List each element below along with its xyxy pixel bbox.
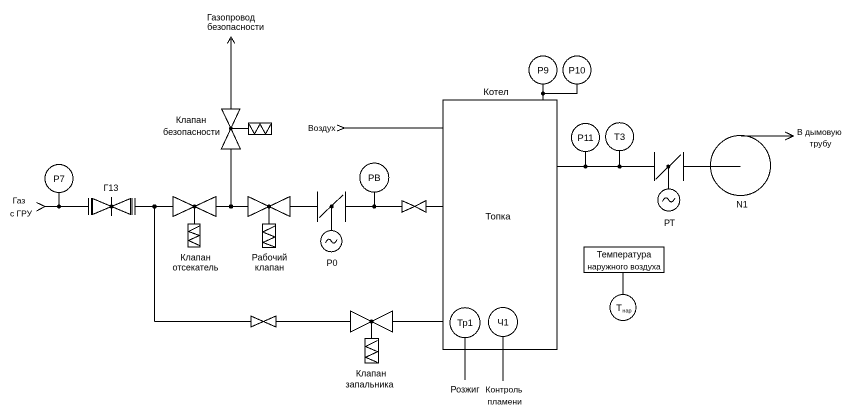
wire safety branch vertical	[230, 149, 232, 207]
svg-text:В дымовую: В дымовую	[797, 127, 842, 137]
instrument Тр1	[450, 308, 480, 380]
svg-text:Газопровод: Газопровод	[207, 13, 256, 23]
wire main gas line segment 6	[426, 206, 443, 208]
label Тнар	[616, 303, 631, 315]
valve Рабочий клапан	[248, 197, 290, 248]
wire main gas line segment 4	[290, 206, 317, 208]
label Котел	[483, 87, 508, 98]
node bypass branch	[152, 204, 156, 208]
svg-text:Розжиг: Розжиг	[451, 385, 481, 395]
node at P7 tap	[57, 205, 61, 209]
wire to smoke exhauster	[683, 166, 740, 168]
label Клапан запальника	[345, 369, 393, 390]
control valve Р0	[317, 192, 345, 252]
label Ч1	[497, 318, 509, 329]
svg-text:Клапан: Клапан	[180, 253, 210, 263]
label Г13	[104, 183, 119, 193]
valve bypass small	[251, 316, 276, 327]
svg-text:РВ: РВ	[368, 173, 381, 184]
node control valve РТ center	[666, 165, 670, 169]
svg-text:нар: нар	[622, 309, 631, 315]
label Клапан безопасности	[163, 115, 220, 137]
svg-text:Температура: Температура	[597, 250, 652, 260]
svg-text:Газ: Газ	[13, 196, 26, 206]
svg-text:Т3: Т3	[614, 132, 625, 143]
svg-text:Рабочий: Рабочий	[252, 253, 287, 263]
box Температура наружного воздуха	[584, 247, 664, 273]
label Р11	[577, 133, 593, 144]
node valve рабочий center	[267, 205, 271, 209]
wire bypass horizontal segment 3	[393, 321, 444, 323]
node safety valve center	[229, 127, 233, 131]
label Рабочий клапан	[252, 253, 287, 273]
label P7	[53, 174, 65, 185]
svg-text:Тр1: Тр1	[457, 318, 473, 329]
wire main gas line segment 2	[135, 206, 173, 208]
label Т3	[614, 132, 625, 143]
svg-text:N1: N1	[736, 200, 748, 210]
svg-text:Т: Т	[616, 303, 622, 314]
wire main gas line segment 5	[345, 206, 402, 208]
instrument Ч1	[489, 308, 518, 382]
label Газопровод безопасности	[207, 13, 264, 33]
instrument Р11	[572, 124, 600, 167]
svg-text:пламени: пламени	[488, 397, 523, 407]
wire main gas line segment 3	[216, 206, 248, 208]
instrument P7	[45, 165, 73, 207]
wire safety pipe up	[230, 39, 232, 109]
instrument РВ	[360, 163, 389, 206]
svg-text:безопасности: безопасности	[163, 127, 220, 137]
valve Клапан безопасности	[221, 109, 271, 149]
label Газ с ГРУ	[10, 196, 33, 219]
valve Клапан запальника	[351, 311, 393, 363]
svg-text:клапан: клапан	[255, 263, 284, 273]
label РТ	[664, 218, 676, 228]
label N1	[736, 200, 748, 210]
svg-text:Клапан: Клапан	[356, 369, 386, 379]
svg-text:Г13: Г13	[104, 183, 119, 193]
instrument Р9	[529, 56, 557, 100]
boiler Котел outline	[443, 100, 557, 350]
wire main gas line segment 1	[45, 206, 89, 208]
node РВ tap	[372, 205, 376, 209]
wire bypass horizontal segment 2	[276, 321, 351, 323]
label Тр1	[457, 318, 473, 329]
svg-text:Котел: Котел	[483, 87, 508, 98]
svg-text:Воздух: Воздух	[308, 123, 336, 133]
label Р9	[537, 66, 549, 77]
smoke exhauster N1	[711, 136, 771, 196]
label Р0	[326, 258, 337, 268]
svg-text:отсекатель: отсекатель	[173, 263, 219, 273]
instrument Тнар	[610, 295, 636, 321]
node valve запальника center	[370, 320, 374, 324]
arrow safety pipe up	[227, 37, 234, 44]
node control valve Р0 center	[330, 204, 334, 208]
svg-text:Р10: Р10	[569, 66, 586, 77]
node Т3 tap	[618, 165, 622, 169]
svg-text:с ГРУ: с ГРУ	[10, 209, 33, 219]
valve small before boiler	[402, 201, 426, 213]
label Клапан отсекатель	[173, 253, 219, 273]
arrow air inlet	[337, 125, 345, 131]
svg-text:Р11: Р11	[577, 133, 593, 144]
svg-text:запальника: запальника	[345, 380, 393, 390]
label В дымовую трубу	[797, 127, 842, 149]
svg-text:безопасности: безопасности	[207, 22, 264, 32]
wire exhauster discharge	[741, 135, 792, 137]
control valve РТ	[654, 152, 683, 211]
label Розжиг	[451, 385, 481, 395]
svg-text:Топка: Топка	[485, 212, 511, 223]
instrument Т3	[606, 123, 634, 167]
svg-text:наружного воздуха: наружного воздуха	[587, 262, 661, 272]
node Р11 tap	[584, 165, 588, 169]
label Р10	[569, 66, 586, 77]
svg-text:трубу: трубу	[810, 139, 833, 149]
label Воздух	[308, 123, 336, 133]
node Р9 Р10 junction	[541, 92, 545, 96]
valve Г13	[89, 197, 136, 216]
svg-text:Ч1: Ч1	[497, 318, 509, 329]
svg-text:Р7: Р7	[53, 174, 65, 185]
arrow gas inlet	[37, 203, 46, 212]
label РВ	[368, 173, 381, 184]
svg-text:Клапан: Клапан	[176, 115, 206, 125]
label Температура наружного воздуха	[587, 250, 661, 272]
valve Клапан отсекатель	[173, 197, 216, 247]
svg-text:Р0: Р0	[326, 258, 337, 268]
wire bypass horizontal segment 1	[155, 321, 251, 323]
node valve Г13 center	[110, 205, 114, 209]
wire air line	[345, 127, 444, 129]
svg-text:Контроль: Контроль	[486, 385, 523, 395]
svg-text:Р9: Р9	[537, 66, 549, 77]
arrow to chimney	[785, 132, 794, 140]
instrument Р10	[543, 56, 591, 94]
wire boiler outlet	[557, 166, 654, 168]
wire to Тнар	[622, 273, 624, 295]
label Контроль пламени	[486, 385, 523, 407]
label Топка	[485, 212, 511, 223]
wire bypass vertical	[154, 207, 156, 322]
node valve отсекатель center	[193, 205, 197, 209]
node safety branch	[229, 204, 233, 208]
svg-text:РТ: РТ	[664, 218, 676, 228]
